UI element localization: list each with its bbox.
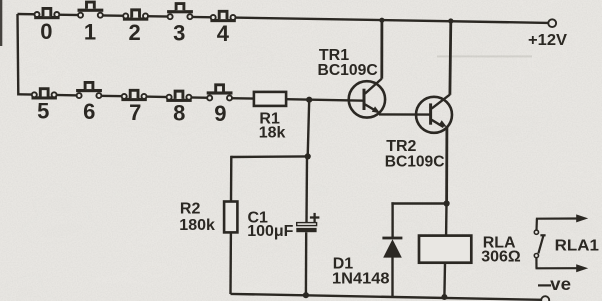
label D1 value: [332, 255, 390, 287]
wire left vertical: [16, 14, 19, 96]
svg-text:BC109C: BC109C: [318, 62, 379, 79]
label R2 value: [179, 200, 215, 233]
label TR1: [318, 47, 379, 79]
svg-text:18k: 18k: [259, 125, 286, 142]
pushbutton S2: [123, 10, 148, 21]
wire TR2 emitter vertical: [445, 127, 448, 204]
label R1 value: [259, 110, 286, 141]
label 3: [173, 21, 185, 46]
label 8: [173, 100, 185, 125]
svg-text:1N4148: 1N4148: [332, 270, 390, 287]
node emitter-D1 junction: [444, 200, 450, 206]
scan edge artifact: [0, 0, 2, 46]
svg-text:3: 3: [173, 21, 185, 46]
label 2: [128, 20, 140, 45]
terminal -ve: [541, 296, 549, 301]
svg-text:8: 8: [173, 100, 185, 125]
svg-text:BC109C: BC109C: [385, 153, 445, 170]
wire C1 top lead: [305, 156, 308, 222]
svg-text:7: 7: [129, 100, 141, 125]
capacitor C1 plate top: [297, 223, 317, 226]
node base junction: [306, 97, 312, 103]
wire R1 to TR1 base: [286, 99, 364, 101]
relay coil RLA: [419, 236, 471, 263]
svg-text:100μF: 100μF: [247, 223, 293, 240]
svg-text:R2: R2: [180, 200, 201, 217]
wire 0V rail (bottom): [231, 294, 542, 300]
label 5: [37, 98, 49, 123]
wire TR1 collector: [380, 20, 383, 79]
pushbutton S5: [32, 89, 57, 100]
wire RLA bottom lead: [443, 263, 446, 297]
capacitor C1 plate bottom: [296, 228, 316, 232]
label -ve: [538, 274, 571, 294]
pushbutton S8: [166, 91, 191, 102]
pushbutton S6: [76, 82, 102, 98]
svg-text:5: 5: [37, 98, 49, 123]
pushbutton S3: [167, 4, 193, 20]
svg-text:306Ω: 306Ω: [481, 249, 521, 266]
svg-text:180k: 180k: [179, 217, 215, 234]
label TR2: [385, 138, 445, 171]
pushbutton S4: [210, 11, 235, 22]
node R2-C1 junction: [305, 153, 311, 159]
terminal +12V: [548, 19, 556, 27]
wire R2 to C1: [231, 155, 307, 158]
wire R2 top lead: [230, 156, 233, 202]
node C1 bottom junction: [303, 292, 309, 298]
wire +12V rail (top, buttons 0-4): [18, 14, 549, 23]
svg-text:4: 4: [217, 21, 230, 46]
svg-text:2: 2: [128, 20, 140, 45]
svg-text:9: 9: [214, 101, 226, 126]
wire C1 bottom lead: [305, 232, 308, 296]
label C1 value: [247, 209, 293, 240]
label RLA value: [481, 235, 521, 266]
pushbutton S1: [78, 2, 104, 18]
resistor R1: [254, 92, 286, 106]
wire row 2 (buttons 5-9 to R1): [18, 94, 254, 98]
node RLA bottom junction: [441, 294, 447, 300]
svg-text:0: 0: [40, 19, 52, 44]
wire D1 bottom lead: [391, 257, 393, 296]
label RLA1: [555, 237, 599, 254]
svg-text:+12V: +12V: [528, 32, 567, 49]
pushbutton S9: [207, 85, 233, 101]
svg-text:6: 6: [83, 99, 95, 124]
pushbutton S7: [121, 90, 146, 101]
wire D1 top horizontal: [391, 202, 446, 204]
label +12V: [528, 32, 567, 49]
node TR1 collector junction: [379, 18, 384, 23]
label 9: [214, 101, 226, 126]
wire TR2 collector: [448, 21, 452, 95]
svg-text:RLA1: RLA1: [555, 237, 599, 254]
svg-text:ve: ve: [550, 274, 571, 294]
transistor TR1: [349, 79, 385, 118]
wire TR1 emitter to TR2 base: [379, 113, 431, 116]
wire R2 bottom lead: [229, 232, 232, 294]
wire junction vertical: [308, 100, 310, 157]
transistor TR2: [416, 95, 452, 133]
label 7: [129, 100, 141, 125]
svg-text:TR2: TR2: [386, 138, 416, 155]
wire RLA top lead: [445, 204, 448, 236]
wire D1 top lead: [391, 202, 393, 237]
resistor R2: [224, 202, 237, 233]
relay contact RLA1: [534, 214, 588, 272]
faint scan streak: [437, 55, 532, 57]
svg-text:1: 1: [84, 20, 96, 45]
pushbutton S0: [34, 8, 59, 19]
node TR2 collector junction: [448, 18, 453, 23]
label 6: [83, 99, 95, 124]
C1 polarity +: [310, 213, 320, 222]
label 1: [84, 20, 96, 45]
label 4: [217, 21, 230, 46]
diode D1: [382, 237, 402, 258]
label 0: [40, 19, 52, 44]
